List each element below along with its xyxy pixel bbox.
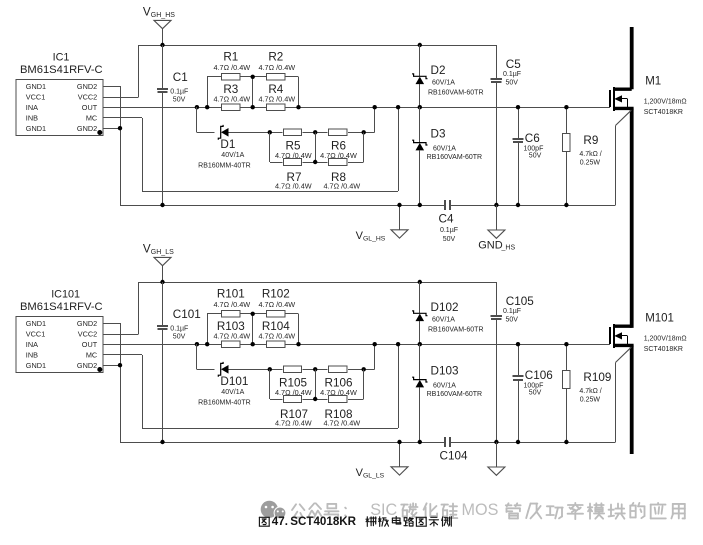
resistor R103 (4.7Ω/0.4W) [213, 320, 250, 348]
svg-text:R109: R109 [583, 371, 611, 384]
pin INB of IC1 [26, 113, 38, 122]
svg-text:MOS: MOS [462, 501, 499, 519]
junction R106 right [362, 367, 366, 371]
svg-text:M101: M101 [645, 313, 674, 325]
wire GND2 pins to bottom rail [103, 86, 121, 205]
junction lower branch mid [313, 397, 317, 401]
svg-text:R9: R9 [583, 134, 598, 147]
wire bottom rail (left of C104) [120, 442, 445, 444]
pin INA of IC101 [26, 340, 38, 349]
junction gate rail / D101 branch [195, 342, 199, 346]
gate-driver IC IC1 (BM61S41RFV-C) [16, 51, 103, 135]
svg-text:4.7Ω /0.4W: 4.7Ω /0.4W [323, 419, 360, 428]
junction gate rail / D1 branch [195, 105, 199, 109]
junction R5 left [268, 130, 272, 134]
svg-text:GND2: GND2 [77, 124, 97, 133]
svg-text:0.25W: 0.25W [580, 160, 601, 167]
resistor R1 (4.7Ω/0.4W) [213, 50, 250, 80]
junction GND2 pins [118, 126, 122, 130]
junction mid turn-off [313, 367, 317, 371]
svg-text:4.7kΩ /: 4.7kΩ / [579, 388, 601, 395]
svg-text:R101: R101 [217, 287, 245, 300]
resistor R104 (4.7Ω/0.4W) [258, 320, 295, 348]
junction bottom rail / V_GL_LS [397, 440, 401, 444]
wire lower parallel branch [270, 132, 364, 162]
svg-text:4.7Ω /0.4W: 4.7Ω /0.4W [275, 419, 312, 428]
junction bottom rail / C101 [160, 440, 164, 444]
junction gate rail / C106 [516, 342, 520, 346]
svg-text:100pF: 100pF [524, 145, 544, 152]
resistor R4 (4.7Ω/0.4W) [258, 83, 295, 111]
transistor M101 (SiC MOSFET 1,200V/18mΩ SCT4018KR) [610, 313, 687, 354]
caption: figure 47 title [259, 515, 451, 528]
capacitor C4 [439, 200, 459, 243]
svg-text:C6: C6 [525, 132, 540, 145]
svg-text:C4: C4 [439, 212, 454, 225]
svg-text:C1: C1 [173, 71, 188, 84]
wire R6 to riser [348, 107, 375, 132]
svg-text:D3: D3 [431, 128, 446, 141]
wire V_GH_LS to top rail [162, 266, 164, 282]
junction bottom rail / D103 [418, 440, 422, 444]
power symbol V_GH_HS [143, 5, 175, 28]
svg-text:SCT4018KR: SCT4018KR [290, 515, 356, 528]
svg-text:C106: C106 [525, 369, 553, 382]
svg-text:1,200V/18mΩ: 1,200V/18mΩ [644, 98, 687, 105]
svg-text:V: V [143, 5, 151, 18]
svg-text:4.7kΩ /: 4.7kΩ / [579, 151, 601, 158]
svg-text:4.7Ω /0.4W: 4.7Ω /0.4W [213, 63, 250, 72]
wire GND2 pins to bottom rail [103, 323, 121, 442]
svg-text:50V: 50V [173, 97, 186, 104]
wire D1 anode to R5 [229, 132, 283, 134]
svg-text:D101: D101 [220, 375, 248, 388]
svg-text:_HS: _HS [501, 244, 516, 251]
junction gate rail / network left [205, 105, 209, 109]
svg-text:RB160VAM-60TR: RB160VAM-60TR [427, 391, 483, 398]
svg-text:60V/1A: 60V/1A [432, 79, 455, 86]
capacitor C101 (0.1uF 50V) [157, 282, 201, 442]
pin INB of IC101 [26, 350, 38, 359]
resistor R108 (4.7Ω/0.4W) [323, 396, 360, 428]
junction mid riser bottom [251, 105, 255, 109]
wire top supply rail [139, 282, 497, 284]
resistor R102 (4.7Ω/0.4W) [258, 287, 295, 317]
junction bottom rail / C1 [160, 203, 164, 207]
svg-text:INA: INA [26, 103, 38, 112]
svg-text:4.7Ω /0.4W: 4.7Ω /0.4W [213, 300, 250, 309]
svg-text:R1: R1 [223, 50, 238, 63]
pin GND2 of IC1 [77, 82, 97, 91]
pin VCC1 of IC101 [26, 330, 45, 339]
pin OUT of IC1 [82, 103, 98, 112]
transistor M1 (SiC MOSFET 1,200V/18mΩ SCT4018KR) [610, 76, 687, 117]
resistor R5 (4.7Ω/0.4W) [275, 129, 312, 160]
junction top rail / D102 [418, 280, 422, 284]
svg-text:0.1µF: 0.1µF [440, 227, 458, 234]
diode D103 (60V/1A RB160VAM-60TR) [412, 344, 482, 442]
capacitor C5 (0.1µF 50V) [491, 45, 522, 205]
resistor R101 (4.7Ω/0.4W) [213, 287, 250, 317]
junction bottom rail / C105 / GND_LS [494, 440, 498, 444]
pin MC of IC101 [86, 350, 97, 359]
svg-text:40V/1A: 40V/1A [221, 152, 244, 159]
wire kelvin source of M101 [616, 347, 632, 442]
svg-text:C104: C104 [440, 449, 468, 462]
svg-text:GL_LS: GL_LS [363, 472, 385, 479]
wire top supply rail [139, 45, 497, 47]
wire R-network left riser [207, 314, 209, 344]
resistor R9 (4.7kΩ/0.25W) [563, 107, 602, 205]
diode D101 (40V/1A RB160MM-40TR) [198, 362, 251, 407]
wire D101 anode to R105 [229, 369, 283, 371]
resistor R106 (4.7Ω/0.4W) [320, 366, 357, 397]
junction gate rail / MC return [396, 342, 400, 346]
junction gate rail / MC return [396, 105, 400, 109]
svg-text:60V/1A: 60V/1A [432, 316, 455, 323]
junction gate rail / R9 [564, 105, 568, 109]
svg-text:GND1: GND1 [26, 319, 46, 328]
watermark text [292, 501, 685, 519]
svg-text:4.7Ω /0.4W: 4.7Ω /0.4W [323, 182, 360, 191]
wire lower parallel branch [270, 369, 364, 399]
wire bottom rail (right of C104) [450, 442, 616, 444]
svg-text:4.7Ω /0.4W: 4.7Ω /0.4W [213, 331, 250, 340]
pin GND2 of IC101 [77, 319, 97, 328]
svg-text:OUT: OUT [82, 340, 98, 349]
pin GND1 of IC1 [26, 82, 46, 91]
svg-text:MC: MC [86, 350, 97, 359]
svg-text:INA: INA [26, 340, 38, 349]
svg-text:4.7Ω /0.4W: 4.7Ω /0.4W [258, 63, 295, 72]
junction top rail / C1 [160, 43, 164, 47]
svg-text:RB160VAM-60TR: RB160VAM-60TR [428, 327, 484, 334]
pin VCC2 of IC101 [78, 330, 97, 339]
svg-text:RB160VAM-60TR: RB160VAM-60TR [428, 90, 484, 97]
svg-text:C5: C5 [506, 58, 521, 71]
svg-text:SCT4018KR: SCT4018KR [644, 109, 683, 116]
wire V_GH_HS to top rail [162, 29, 164, 45]
wire R105-R106 [303, 369, 328, 371]
svg-text:0.1µF: 0.1µF [170, 325, 188, 332]
wire kelvin source of M1 [616, 110, 632, 205]
junction mid riser top [251, 75, 255, 79]
svg-text:50V: 50V [529, 390, 542, 397]
junction bottom rail / R9 [564, 203, 568, 207]
svg-text:INB: INB [26, 350, 38, 359]
svg-text:D2: D2 [431, 64, 446, 77]
junction gate rail / turn-off return [373, 342, 377, 346]
resistor R105 (4.7Ω/0.4W) [275, 366, 312, 397]
pin GND1 (bottom) of IC101 [26, 361, 46, 370]
svg-text:GND2: GND2 [77, 361, 97, 370]
junction lower branch mid [313, 160, 317, 164]
pin VCC2 of IC1 [78, 93, 97, 102]
wire VCC2 riser [103, 45, 139, 98]
junction gate rail / network left [205, 342, 209, 346]
capacitor C1 (0.1uF 50V) [157, 45, 189, 205]
junction mid turn-off [313, 130, 317, 134]
wire D101 branch drop [197, 344, 215, 369]
svg-text:60V/1A: 60V/1A [433, 145, 456, 152]
wire R-network mid riser [252, 314, 254, 344]
wire MC miller-clamp return [103, 344, 399, 428]
wire D1 branch drop [197, 107, 215, 132]
svg-text:D102: D102 [431, 301, 459, 314]
svg-text:RB160MM-40TR: RB160MM-40TR [198, 400, 251, 407]
pin GND1 (bottom) of IC1 [26, 124, 46, 133]
svg-text:GND: GND [478, 239, 503, 251]
svg-text:0.1µF: 0.1µF [170, 88, 188, 95]
svg-text:60V/1A: 60V/1A [433, 382, 456, 389]
svg-text:VCC2: VCC2 [78, 93, 97, 102]
svg-text:C101: C101 [173, 308, 201, 321]
wire R-network right riser [298, 314, 300, 344]
svg-text:50V: 50V [173, 334, 186, 341]
junction bottom rail / C5 / GND_HS [494, 203, 498, 207]
junction mid riser bottom [251, 342, 255, 346]
resistor R7 (4.7Ω/0.4W) [275, 159, 312, 191]
svg-text:50V: 50V [529, 153, 542, 160]
junction bottom rail / R109 [564, 440, 568, 444]
pin GND1 of IC101 [26, 319, 46, 328]
svg-text:4.7Ω /0.4W: 4.7Ω /0.4W [275, 182, 312, 191]
junction bottom rail / V_GL_HS [397, 203, 401, 207]
power symbol V_GH_LS [143, 242, 174, 265]
junction R6 right [362, 130, 366, 134]
pin VCC1 of IC1 [26, 93, 45, 102]
diode D2 (60V/1A RB160VAM-60TR) [412, 45, 483, 107]
wire R-network top branch [207, 313, 298, 315]
resistor R6 (4.7Ω/0.4W) [320, 129, 357, 160]
svg-text:IC1: IC1 [53, 51, 70, 63]
junction bottom rail / C6 [516, 203, 520, 207]
junction top rail / D2 [418, 43, 422, 47]
gate-driver IC IC101 (BM61S41RFV-C) [16, 288, 103, 372]
svg-text:R2: R2 [268, 50, 283, 63]
svg-text:GL_HS: GL_HS [363, 235, 386, 242]
junction GND2 pins [118, 363, 122, 367]
diode D3 (60V/1A RB160VAM-60TR) [412, 107, 482, 205]
svg-text:GND1: GND1 [26, 82, 46, 91]
ground symbol GND_HS [478, 205, 515, 251]
svg-text:GND2: GND2 [77, 82, 97, 91]
svg-text:V: V [143, 242, 151, 255]
junction top rail / C101 [160, 280, 164, 284]
watermark logo (chat icon) [261, 501, 286, 519]
svg-text:VCC1: VCC1 [26, 93, 45, 102]
svg-text:D1: D1 [220, 138, 235, 151]
junction mid riser top [251, 312, 255, 316]
svg-text:4.7Ω /0.4W: 4.7Ω /0.4W [213, 94, 250, 103]
ground symbol GND_LS [488, 442, 505, 475]
pin INA of IC1 [26, 103, 38, 112]
junction gate rail / clamp diodes [418, 342, 422, 346]
diode D1 (40V/1A RB160MM-40TR) [198, 125, 251, 170]
resistor R109 (4.7kΩ/0.25W) [563, 344, 612, 442]
svg-text:50V: 50V [506, 316, 519, 323]
svg-text:SIC: SIC [370, 501, 397, 519]
svg-text:4.7Ω /0.4W: 4.7Ω /0.4W [258, 331, 295, 340]
svg-text:50V: 50V [506, 79, 519, 86]
diode D102 (60V/1A RB160VAM-60TR) [412, 282, 483, 344]
wire R106 to riser [348, 344, 375, 369]
capacitor C106 (100pF 50V) [512, 344, 552, 442]
pin OUT of IC101 [82, 340, 98, 349]
junction gate rail / R109 [564, 342, 568, 346]
capacitor C104 [440, 437, 468, 462]
wire OUT gate rail [103, 344, 610, 346]
junction gate rail / network right [296, 342, 300, 346]
svg-text:M1: M1 [645, 76, 661, 88]
wire R5-R6 [303, 132, 328, 134]
ground symbol V_GL_HS [356, 205, 408, 242]
svg-text:47.: 47. [272, 515, 288, 528]
pin MC of IC1 [86, 113, 97, 122]
junction gate rail / network right [296, 105, 300, 109]
svg-text:IC101: IC101 [51, 288, 80, 300]
svg-text:VCC1: VCC1 [26, 330, 45, 339]
resistor R3 (4.7Ω/0.4W) [213, 83, 250, 111]
wire R-network left riser [207, 77, 209, 107]
svg-text:4.7Ω /0.4W: 4.7Ω /0.4W [258, 300, 295, 309]
junction R105 left [268, 367, 272, 371]
svg-text:RB160MM-40TR: RB160MM-40TR [198, 163, 251, 170]
resistor R107 (4.7Ω/0.4W) [275, 396, 312, 428]
capacitor C6 (100pF 50V) [512, 107, 543, 205]
svg-text:R102: R102 [262, 287, 290, 300]
power bus (drain/source rail) [630, 27, 634, 454]
capacitor C105 (0.1µF 50V) [491, 282, 535, 442]
svg-text:D103: D103 [431, 365, 459, 378]
svg-text:VCC2: VCC2 [78, 330, 97, 339]
svg-text:BM61S41RFV-C: BM61S41RFV-C [20, 301, 103, 313]
wire R-network mid riser [252, 77, 254, 107]
svg-text:OUT: OUT [82, 103, 98, 112]
svg-text:0.1µF: 0.1µF [503, 71, 521, 78]
junction gate rail / clamp diodes [418, 105, 422, 109]
svg-text:INB: INB [26, 113, 38, 122]
svg-text:GND1: GND1 [26, 361, 46, 370]
svg-text:C105: C105 [506, 295, 534, 308]
wire VCC2 riser [103, 282, 139, 335]
wire R-network top branch [207, 76, 298, 78]
junction gate rail / C6 [516, 105, 520, 109]
svg-text:100pF: 100pF [524, 382, 544, 389]
wire bottom rail (right of C4) [450, 205, 616, 207]
ground symbol V_GL_LS [356, 442, 408, 479]
pin GND2 (bottom) of IC101 [77, 361, 102, 372]
svg-text:GND2: GND2 [77, 319, 97, 328]
pin GND2 (bottom) of IC1 [77, 124, 102, 135]
resistor R8 (4.7Ω/0.4W) [323, 159, 360, 191]
wire OUT gate rail [103, 107, 610, 109]
svg-text:MC: MC [86, 113, 97, 122]
svg-text:4.7Ω /0.4W: 4.7Ω /0.4W [258, 94, 295, 103]
svg-text:0.25W: 0.25W [580, 397, 601, 404]
junction gate rail / turn-off return [373, 105, 377, 109]
svg-text:0.1µF: 0.1µF [503, 308, 521, 315]
svg-text:GH_HS: GH_HS [151, 12, 175, 19]
wire MC miller-clamp return [103, 107, 399, 191]
junction bottom rail / D3 [418, 203, 422, 207]
wire R-network right riser [298, 77, 300, 107]
svg-text:GH_LS: GH_LS [151, 249, 174, 256]
wire bottom rail (left of C4) [120, 205, 445, 207]
svg-text:1,200V/18mΩ: 1,200V/18mΩ [644, 335, 687, 342]
svg-text:50V: 50V [443, 236, 456, 243]
svg-text:40V/1A: 40V/1A [221, 389, 244, 396]
svg-text:SCT4018KR: SCT4018KR [644, 346, 683, 353]
svg-text:GND1: GND1 [26, 124, 46, 133]
resistor R2 (4.7Ω/0.4W) [258, 50, 295, 80]
svg-text:BM61S41RFV-C: BM61S41RFV-C [20, 64, 103, 76]
svg-text:RB160VAM-60TR: RB160VAM-60TR [427, 154, 483, 161]
junction bottom rail / C106 [516, 440, 520, 444]
